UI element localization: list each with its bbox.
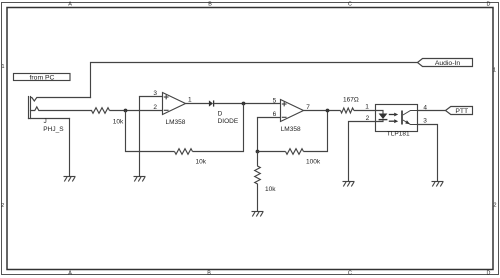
ground jack sleeve (64, 177, 76, 182)
svg-text:B: B (207, 271, 211, 277)
svg-text:167Ω: 167Ω (343, 96, 359, 103)
ground opto pin3 (432, 182, 444, 187)
jack tip contact wire (31, 98, 91, 102)
from PC label box (14, 74, 71, 82)
resistor 10k to ground vertical (255, 152, 261, 212)
connector J PHJ_S jack body (29, 97, 70, 119)
svg-text:A: A (68, 2, 72, 8)
svg-text:1: 1 (188, 97, 192, 104)
svg-text:Audio-In: Audio-In (435, 60, 461, 67)
wire opto pin2 to ground (349, 122, 376, 182)
feedback loop 1 wire (126, 111, 175, 152)
ground opto pin2 (343, 182, 355, 187)
svg-text:TLP181: TLP181 (387, 131, 410, 138)
wire top rail to Audio-In (91, 63, 418, 98)
svg-text:100k: 100k (306, 159, 321, 166)
optocoupler U2 TLP181 box (376, 105, 418, 132)
wire resistor to op-amp pin2 (110, 110, 163, 112)
wire pin3 to ground (139, 97, 141, 177)
svg-text:1: 1 (365, 104, 369, 111)
resistor 100k feedback (286, 149, 304, 155)
node A junction dot (124, 109, 128, 113)
resistor 167 ohm (341, 108, 354, 113)
op-amp U1A LM358 (140, 93, 186, 115)
ground below 10k (252, 212, 264, 217)
wire feedback to node B (193, 104, 244, 152)
op-amp U1B LM358 (258, 100, 304, 122)
wire 167 to opto pin1 (354, 110, 376, 112)
wire op-amp2 output to 167 (304, 110, 341, 112)
svg-text:2: 2 (494, 202, 497, 208)
svg-text:2: 2 (366, 115, 370, 122)
opto LED (376, 111, 388, 122)
jack ring contact wire (31, 107, 92, 111)
svg-text:10k: 10k (196, 159, 207, 166)
wire diode to op-amp2 pin5 (214, 103, 281, 105)
svg-text:LM358: LM358 (166, 119, 186, 126)
opto light arrows (389, 113, 398, 124)
svg-text:10k: 10k (113, 119, 124, 126)
svg-text:PHJ_S: PHJ_S (43, 126, 64, 133)
svg-text:DIODE: DIODE (218, 118, 239, 125)
svg-text:B: B (208, 2, 212, 8)
junction dot feedback2 (256, 150, 260, 154)
wire jack sleeve to ground (69, 119, 71, 177)
wire opto pin4 to PTT (418, 110, 446, 112)
svg-text:PTT: PTT (455, 108, 468, 115)
diode D DIODE (209, 100, 214, 106)
ground op-amp pin3 (134, 177, 146, 182)
wire junction to 100k (258, 151, 286, 153)
svg-text:D: D (487, 271, 491, 277)
svg-text:from PC: from PC (30, 75, 55, 82)
svg-text:2: 2 (153, 104, 157, 111)
wire op-amp1 output to diode (186, 103, 210, 105)
svg-text:5: 5 (273, 97, 277, 104)
svg-text:C: C (348, 2, 352, 8)
svg-text:3: 3 (153, 90, 157, 97)
svg-text:10k: 10k (265, 186, 276, 193)
wire 100k to node C (304, 111, 328, 152)
svg-text:A: A (68, 271, 72, 277)
wire opto pin3 to ground (418, 125, 438, 182)
svg-text:J: J (44, 118, 47, 125)
resistor 10k feedback (175, 149, 193, 155)
PTT tag (446, 107, 473, 116)
node B junction dot (242, 102, 246, 106)
node C junction dot (326, 109, 330, 113)
svg-text:D: D (487, 2, 491, 8)
svg-text:D: D (218, 111, 223, 118)
svg-text:6: 6 (273, 111, 277, 118)
wire pin6 down to junction (257, 118, 259, 152)
svg-text:3: 3 (423, 118, 427, 125)
svg-text:1: 1 (2, 64, 5, 70)
resistor R 10k input (92, 108, 110, 114)
Audio-In tag (418, 59, 473, 68)
svg-text:2: 2 (1, 203, 4, 209)
svg-text:C: C (348, 271, 352, 277)
svg-text:LM358: LM358 (281, 126, 301, 133)
opto phototransistor (402, 111, 418, 125)
svg-text:1: 1 (493, 68, 496, 74)
